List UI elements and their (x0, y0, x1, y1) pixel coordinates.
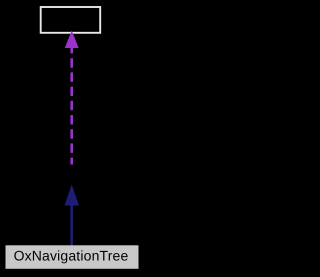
base class node (empty box) (41, 7, 100, 33)
inheritance edge (solid blue arrow) : shaft (70, 203, 73, 246)
inheritance edge (solid blue arrow) : arrowhead (65, 186, 78, 205)
usage edge (dashed purple arrow) : shaft (70, 44, 73, 165)
svg-text:OxNavigationTree: OxNavigationTree (14, 247, 129, 263)
class node OxNavigationTree (filled box) (6, 245, 139, 268)
usage edge (dashed purple arrow) : arrowhead (65, 32, 78, 48)
